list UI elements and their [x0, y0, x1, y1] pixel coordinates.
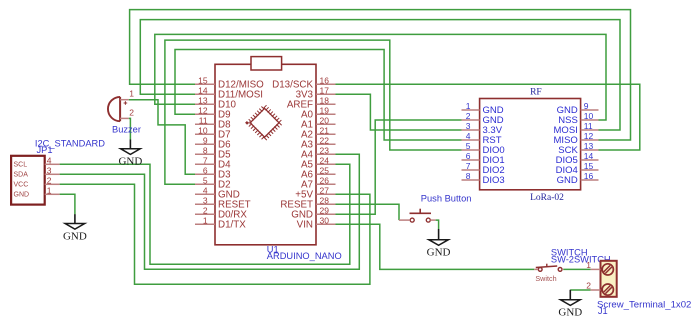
RF right pin stubs [581, 110, 599, 180]
svg-text:J1: J1 [598, 306, 608, 316]
switch SW-2SWITCH [534, 264, 563, 272]
svg-text:2: 2 [203, 205, 208, 215]
U1 value label ARDUINO_NANO [267, 251, 342, 261]
RF reference label [530, 87, 542, 97]
svg-text:1: 1 [203, 215, 208, 225]
svg-text:24: 24 [320, 155, 330, 165]
buzzer pin stubs [120, 100, 129, 119]
svg-text:15: 15 [198, 75, 208, 85]
svg-text:1: 1 [586, 260, 591, 270]
switch sublabel [535, 274, 556, 283]
svg-text:Screw_Terminal_1x02: Screw_Terminal_1x02 [597, 300, 691, 311]
J1 reference label [598, 306, 608, 316]
svg-text:4: 4 [466, 131, 471, 141]
ground symbol below buzzer [118, 140, 142, 168]
RF value label LoRa-02 [530, 193, 564, 203]
wire RESET U1 pin28 to push button [334, 204, 399, 220]
svg-text:8: 8 [466, 171, 471, 181]
svg-text:1: 1 [466, 101, 471, 111]
svg-text:7: 7 [466, 161, 471, 171]
svg-text:1: 1 [47, 185, 52, 195]
U1 right pin names [272, 80, 313, 231]
svg-text:27: 27 [320, 185, 330, 195]
JP1 pin names SCL SDA VCC GND [14, 162, 30, 199]
svg-text:9: 9 [203, 135, 208, 145]
svg-text:12: 12 [198, 105, 208, 115]
J1 value label [597, 300, 691, 311]
svg-text:2: 2 [47, 175, 52, 185]
svg-text:10: 10 [198, 125, 208, 135]
svg-text:Switch: Switch [535, 274, 556, 283]
wire switch to J1 pin1 [563, 268, 590, 270]
switch value label [551, 254, 611, 264]
op-amp U1 body (Arduino Nano outline) [215, 64, 316, 245]
svg-text:DIO3: DIO3 [483, 175, 505, 186]
svg-text:11: 11 [584, 121, 593, 131]
svg-text:21: 21 [320, 125, 330, 135]
wire D9 U1 pin12 to RF RST pin4 [175, 50, 462, 141]
svg-text:RF: RF [530, 87, 542, 97]
svg-text:13: 13 [584, 141, 594, 151]
svg-text:23: 23 [320, 145, 330, 155]
wire JP1 GND pin1 to ground [60, 194, 75, 214]
svg-text:17: 17 [320, 85, 330, 95]
svg-text:3: 3 [47, 165, 52, 175]
svg-text:28: 28 [320, 195, 330, 205]
svg-text:16: 16 [320, 75, 330, 85]
svg-text:5: 5 [203, 175, 208, 185]
svg-text:GND: GND [557, 175, 578, 186]
wire 3V3 U1 pin17 to RF 3.3V pin3 [334, 94, 462, 130]
svg-text:14: 14 [584, 151, 594, 161]
JP1 label I2C_STANDARD [35, 139, 105, 149]
svg-text:16: 16 [584, 171, 594, 181]
buzzer plus sign [124, 101, 128, 105]
U1 reference designator label [267, 245, 279, 255]
svg-text:25: 25 [320, 165, 330, 175]
RF right pin numbers 9..16 [584, 101, 594, 181]
JP1 reference label [37, 145, 53, 155]
U1 right pin numbers 16..30 [320, 75, 330, 225]
svg-text:20: 20 [320, 115, 330, 125]
buzzer label [112, 124, 141, 134]
wire D12/MISO U1 pin15 to RF MISO pin12 [130, 10, 631, 140]
svg-text:LoRa-02: LoRa-02 [530, 193, 564, 203]
svg-text:5: 5 [466, 141, 471, 151]
RF right pin names [554, 105, 579, 186]
wire GND U1 pin29 to RF GND pin2 [334, 120, 462, 214]
switch name label [551, 248, 588, 258]
U1 left pin numbers 15..1 [198, 75, 208, 225]
svg-text:GND: GND [14, 192, 30, 199]
svg-text:ARDUINO_NANO: ARDUINO_NANO [267, 251, 342, 261]
svg-text:7: 7 [203, 155, 208, 165]
svg-text:SDA: SDA [14, 172, 29, 179]
svg-text:22: 22 [320, 135, 330, 145]
push button label [421, 194, 472, 204]
wire +5V U1 pin27 to JP1 VCC [60, 184, 370, 284]
U1 right pin stubs [316, 84, 336, 224]
svg-text:GND: GND [427, 247, 451, 259]
RF left pin numbers 1..8 [466, 101, 471, 181]
svg-text:18: 18 [320, 95, 330, 105]
wire D10 U1 pin13 to RF NSS pin10 [155, 34, 606, 120]
svg-text:9: 9 [584, 101, 589, 111]
svg-text:4: 4 [203, 185, 208, 195]
JP1 pin stubs [45, 164, 60, 194]
svg-text:14: 14 [198, 85, 208, 95]
wire VIN U1 pin30 to switch [334, 224, 534, 269]
svg-text:Push Button: Push Button [421, 194, 472, 204]
RF module body (LoRa-02 outline) [480, 99, 581, 190]
svg-text:6: 6 [203, 165, 208, 175]
svg-text:8: 8 [203, 145, 208, 155]
wire D11/MOSI U1 pin14 to RF MOSI pin11 [140, 20, 620, 130]
svg-text:3: 3 [203, 195, 208, 205]
J1 screw 1 [602, 264, 613, 275]
J1 pin numbers [586, 260, 591, 290]
svg-text:GND: GND [63, 230, 87, 242]
connector JP1 body [11, 156, 45, 205]
svg-text:2: 2 [129, 107, 134, 117]
svg-text:11: 11 [199, 115, 208, 125]
ground symbol below push button [427, 229, 451, 259]
svg-text:10: 10 [584, 111, 594, 121]
svg-text:SCL: SCL [14, 162, 28, 169]
svg-text:D1/TX: D1/TX [218, 220, 246, 231]
svg-text:19: 19 [320, 105, 330, 115]
J1 screw 2 [602, 284, 613, 295]
svg-text:3: 3 [466, 121, 471, 131]
svg-text:2: 2 [466, 111, 471, 121]
wire push button to ground [436, 220, 439, 229]
screw terminal J1 body [601, 261, 617, 297]
buzzer body [108, 97, 120, 121]
buzzer pin numbers [129, 89, 134, 118]
ground symbol below J1 [558, 290, 582, 319]
svg-text:JP1: JP1 [37, 145, 53, 155]
svg-text:13: 13 [198, 95, 208, 105]
wire buzzer pin1 to U1 D3 pin6 [129, 100, 195, 175]
RF left pin stubs [462, 110, 480, 180]
svg-text:29: 29 [320, 205, 330, 215]
svg-text:12: 12 [584, 131, 594, 141]
svg-text:VCC: VCC [14, 182, 29, 189]
svg-text:4: 4 [47, 155, 52, 165]
wire D2 U1 pin5 to RF DIO0 pin5 [165, 40, 462, 184]
U1 left pin stubs [195, 84, 215, 224]
wire buzzer pin2 to ground [129, 118, 131, 139]
svg-text:GND: GND [558, 307, 582, 319]
svg-text:2: 2 [586, 280, 591, 290]
svg-text:30: 30 [320, 215, 330, 225]
svg-text:6: 6 [466, 151, 471, 161]
wire J1 pin2 to ground [570, 289, 590, 291]
svg-text:VIN: VIN [297, 220, 313, 231]
JP1 pin numbers 4..1 [47, 155, 52, 195]
wire A5 U1 pin24 to JP1 SCL [60, 164, 350, 264]
wire A4 U1 pin23 to JP1 SDA [60, 154, 360, 269]
wire D13/SCK U1 pin16 to RF SCK pin13 [334, 84, 640, 150]
svg-text:1: 1 [129, 89, 134, 99]
ground symbol below JP1 [63, 214, 87, 242]
svg-text:GND: GND [118, 156, 142, 168]
U1 chip diamond glyph [248, 106, 281, 139]
U1 top connector rectangle [251, 57, 282, 70]
push button S1 [399, 209, 436, 222]
J1 pin stubs [591, 269, 601, 290]
svg-text:15: 15 [584, 161, 594, 171]
svg-text:Buzzer: Buzzer [112, 124, 141, 134]
U1 left pin names [218, 80, 264, 231]
RF left pin names [483, 105, 505, 186]
svg-text:26: 26 [320, 175, 330, 185]
